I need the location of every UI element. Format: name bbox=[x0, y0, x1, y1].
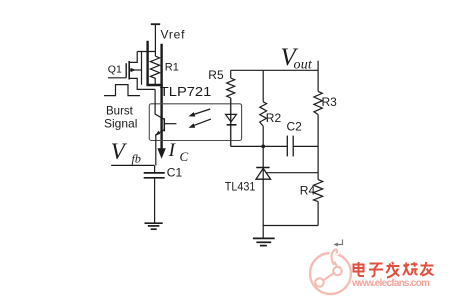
svg-text:www.elecfans.com: www.elecfans.com bbox=[351, 278, 430, 289]
svg-text:out: out bbox=[294, 57, 313, 72]
svg-text:C1: C1 bbox=[167, 165, 183, 179]
svg-text:R4: R4 bbox=[300, 184, 316, 198]
svg-text:fb: fb bbox=[132, 151, 141, 165]
svg-text:TL431: TL431 bbox=[225, 182, 256, 194]
svg-text:Burst: Burst bbox=[106, 105, 134, 117]
svg-text:C: C bbox=[180, 149, 189, 164]
svg-text:R2: R2 bbox=[266, 111, 282, 125]
svg-text:R5: R5 bbox=[208, 68, 224, 82]
svg-text:Signal: Signal bbox=[104, 117, 137, 131]
svg-text:Q1: Q1 bbox=[108, 63, 122, 75]
svg-text:TLP721: TLP721 bbox=[160, 84, 212, 99]
svg-text:C2: C2 bbox=[287, 120, 303, 134]
svg-text:R3: R3 bbox=[322, 95, 338, 109]
svg-text:Vref: Vref bbox=[161, 27, 186, 41]
svg-text:R1: R1 bbox=[165, 61, 179, 73]
